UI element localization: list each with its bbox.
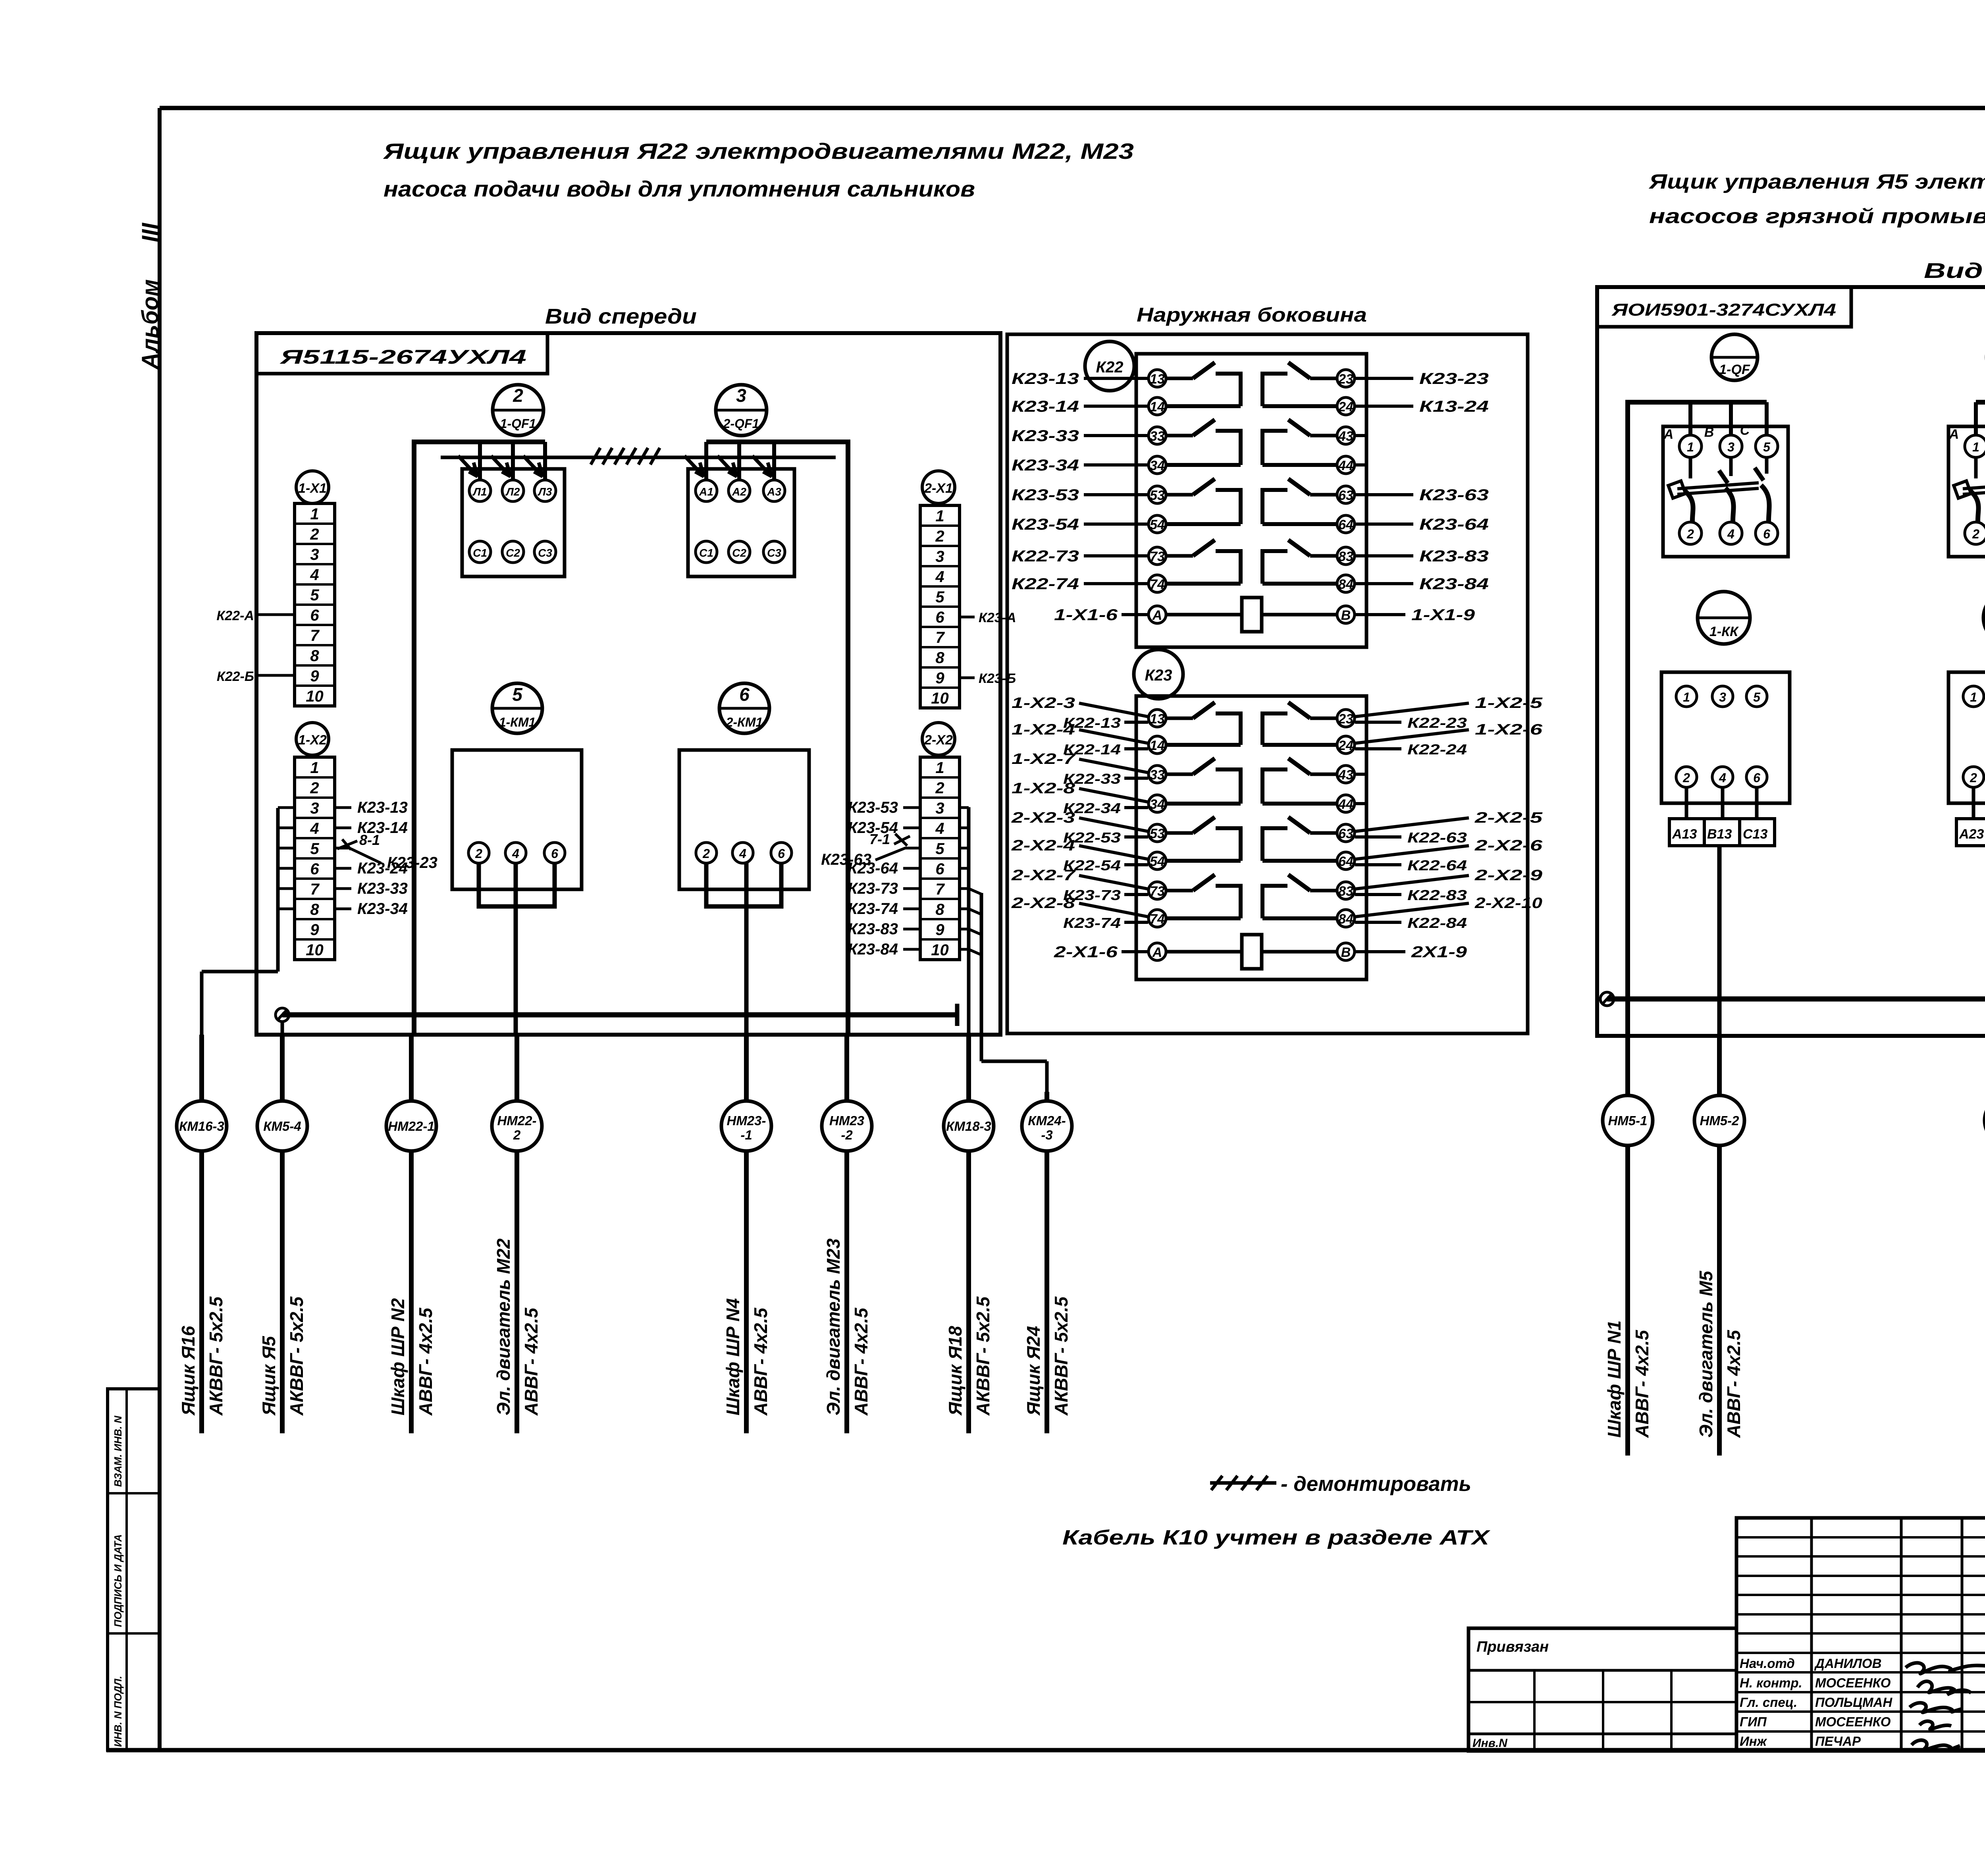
svg-text:Шкаф ШР N2: Шкаф ШР N2 <box>387 1298 408 1415</box>
svg-text:2-QF1: 2-QF1 <box>723 416 759 431</box>
svg-text:Эл. двигатель М23: Эл. двигатель М23 <box>823 1238 844 1415</box>
relay К22 contact 53-54 / 63-64 <box>1149 479 1355 533</box>
svg-text:ЯОИ5901-3274СУХЛ4: ЯОИ5901-3274СУХЛ4 <box>1611 300 1836 320</box>
svg-text:2: 2 <box>1970 771 1977 785</box>
wire labels 1-Х2-3 / К22-13 (К23 left) <box>1012 695 1148 731</box>
svg-text:АВВГ- 4х2.5: АВВГ- 4х2.5 <box>415 1307 436 1416</box>
svg-text:К22-А: К22-А <box>216 608 254 623</box>
svg-text:Ящик Я5: Ящик Я5 <box>258 1336 279 1416</box>
svg-text:2-Х2-8: 2-Х2-8 <box>1011 895 1076 912</box>
wire: 1-КМ1 terminals 2-6 loop and motor feed <box>479 863 555 1035</box>
svg-text:А2: А2 <box>732 486 746 498</box>
wire: 2-X2 right gather to КМ18-3 drop <box>960 807 969 1035</box>
terminal strip 1-X1 designator circle <box>296 471 329 503</box>
svg-text:53: 53 <box>1150 826 1165 841</box>
svg-text:В: В <box>1341 608 1351 623</box>
title: left box heading line 2 <box>384 176 975 201</box>
legend: dismantle symbol <box>1210 1476 1276 1490</box>
breaker 1-QF designator circle <box>1711 334 1758 380</box>
wire labels 1-Х2-8 / К22-34 (К23 left) <box>1012 780 1148 816</box>
breaker 2-QF1 terminal box <box>688 469 794 576</box>
wire: К22 contacts 43/44 stubs to box edge <box>1355 436 1366 465</box>
svg-text:6: 6 <box>310 607 319 624</box>
svg-text:К22-23: К22-23 <box>1407 715 1467 731</box>
svg-text:К23-64: К23-64 <box>1419 516 1489 533</box>
svg-text:3: 3 <box>736 385 746 406</box>
svg-text:2-Х2-4: 2-Х2-4 <box>1011 837 1075 854</box>
svg-text:НМ5-1: НМ5-1 <box>1608 1113 1647 1128</box>
wire labels 2-Х2-5 / К22-63 (К23 right) <box>1355 810 1543 846</box>
svg-text:5: 5 <box>310 840 319 858</box>
svg-text:2: 2 <box>310 526 319 543</box>
svg-text:34: 34 <box>1150 797 1165 812</box>
wire labels 2-Х2-8 / К23-74 (К23 left) <box>1011 895 1148 931</box>
terminal strip 2-X1 designator circle <box>922 471 955 503</box>
svg-text:5: 5 <box>935 840 944 858</box>
svg-text:АВВГ- 4х2.5: АВВГ- 4х2.5 <box>1723 1329 1744 1438</box>
svg-text:2: 2 <box>1682 771 1690 785</box>
svg-text:насоса подачи воды для упл: насоса подачи воды для уплотнения сальни… <box>384 176 975 201</box>
cable drop НМ23--1 (Шкаф ШР N4) <box>721 1035 771 1433</box>
svg-text:В: В <box>1341 945 1351 960</box>
svg-text:74: 74 <box>1150 577 1165 592</box>
wire label К23-14 at 1-X2:4 <box>335 819 408 837</box>
wire label К23-33 (К22 left) <box>1012 427 1148 445</box>
wire label К23-13 (К22 left) <box>1012 370 1148 388</box>
svg-text:К23-13: К23-13 <box>1012 370 1079 388</box>
svg-text:С2: С2 <box>506 547 520 559</box>
earth bus of left panel with earth symbol <box>276 1004 957 1035</box>
svg-text:А3: А3 <box>767 486 781 498</box>
svg-text:83: 83 <box>1338 884 1353 899</box>
svg-text:Вид спереди: Вид спереди <box>545 305 697 328</box>
svg-text:К23-34: К23-34 <box>1012 457 1079 474</box>
svg-text:8: 8 <box>310 901 319 918</box>
svg-text:2: 2 <box>1972 527 1979 541</box>
svg-text:С3: С3 <box>767 547 781 559</box>
svg-text:Альбом: Альбом <box>137 279 163 370</box>
wire label К22-73 (К22 left) <box>1012 548 1148 565</box>
svg-text:К23-34: К23-34 <box>357 900 408 918</box>
svg-text:В: В <box>1704 425 1714 440</box>
svg-text:2-Х1-6: 2-Х1-6 <box>1054 943 1118 961</box>
breaker 1-QF pole box <box>1663 423 1788 557</box>
svg-text:К22-24: К22-24 <box>1407 741 1467 758</box>
svg-text:6: 6 <box>778 846 785 861</box>
svg-text:1: 1 <box>935 759 944 777</box>
wire labels 1-Х2-7 / К22-33 (К23 left) <box>1012 751 1148 787</box>
svg-text:64: 64 <box>1338 517 1353 532</box>
svg-text:5: 5 <box>1763 440 1771 454</box>
svg-text:44: 44 <box>1338 458 1353 473</box>
svg-text:1-Х2-7: 1-Х2-7 <box>1012 751 1076 767</box>
svg-text:ПОЛЬЦМАН: ПОЛЬЦМАН <box>1815 1695 1892 1710</box>
svg-text:1: 1 <box>1970 690 1977 704</box>
svg-text:С1: С1 <box>473 547 487 559</box>
svg-text:1: 1 <box>1683 690 1690 704</box>
svg-text:6: 6 <box>310 860 319 878</box>
relay К22 contact block <box>1136 354 1366 647</box>
cable drop КМ18-3 (Ящик Я18) <box>944 1035 994 1433</box>
svg-text:Шкаф ШР N1: Шкаф ШР N1 <box>1604 1321 1625 1438</box>
contactor 1-КМ1 box <box>452 750 582 889</box>
svg-text:1: 1 <box>1687 440 1694 454</box>
svg-text:8: 8 <box>310 647 319 665</box>
svg-text:7: 7 <box>935 629 945 646</box>
left panel enclosure Я5115-2674УХЛ4 <box>256 333 1000 1035</box>
svg-text:3: 3 <box>1727 440 1734 454</box>
svg-text:НМ22-: НМ22- <box>497 1113 536 1128</box>
wire label К23-74 at 2-X2:8 <box>848 900 920 918</box>
svg-text:К23-74: К23-74 <box>848 900 898 918</box>
svg-text:Л3: Л3 <box>538 486 552 498</box>
svg-text:К23-33: К23-33 <box>357 880 408 897</box>
wire: right feeder bus to 2-QF1 <box>706 442 848 1035</box>
svg-text:АКВВГ- 5х2.5: АКВВГ- 5х2.5 <box>286 1296 307 1416</box>
svg-text:АКВВГ- 5х2.5: АКВВГ- 5х2.5 <box>1051 1296 1072 1416</box>
relay К23 contact 53-54 / 63-64 <box>1149 817 1355 870</box>
svg-text:6: 6 <box>935 609 944 626</box>
svg-text:АВВГ- 4х2.5: АВВГ- 4х2.5 <box>1632 1329 1652 1438</box>
wire: 2-X2 second gather to КМ24-3 drop <box>969 889 1047 1092</box>
outer side-wall enclosure box <box>1007 334 1528 1033</box>
wire label К23-83 (К22 right) <box>1355 548 1489 565</box>
svg-text:14: 14 <box>1150 399 1165 415</box>
note: Кабель К10 учтен в разделе АТХ <box>1062 1526 1491 1549</box>
wire label К23-63 (К22 right) <box>1355 486 1489 504</box>
svg-text:К23-73: К23-73 <box>848 880 898 897</box>
svg-text:А13: А13 <box>1672 827 1697 842</box>
svg-text:А: А <box>1663 427 1674 442</box>
svg-text:Ящик управления Я22 э: Ящик управления Я22 электродвигателями М… <box>383 139 1134 164</box>
svg-text:13: 13 <box>1150 711 1165 727</box>
wire label К23-64 (К22 right) <box>1355 516 1489 533</box>
wire label К23-23 (К22 right) <box>1355 370 1489 388</box>
wire label 2-Х1-6 (К23 coil А) <box>1054 943 1148 961</box>
svg-text:Эл. двигатель М22: Эл. двигатель М22 <box>493 1238 514 1415</box>
contactor 1-КМ1 designator circle (pos 5) <box>492 683 542 733</box>
breaker 1-QF1 designator circle (pos 2) <box>493 385 543 436</box>
svg-text:2-Х1: 2-Х1 <box>924 481 953 496</box>
wire label К22-Б at 1-X1:9 <box>217 669 295 684</box>
svg-text:2: 2 <box>1686 527 1694 541</box>
svg-text:АКВВГ- 5х2.5: АКВВГ- 5х2.5 <box>973 1296 993 1416</box>
wire: line to be dismantled (with hatch marks) <box>441 448 836 476</box>
svg-text:К23-Б: К23-Б <box>979 671 1016 686</box>
svg-text:1: 1 <box>310 505 319 523</box>
svg-text:84: 84 <box>1338 577 1353 592</box>
svg-text:ГИП: ГИП <box>1740 1714 1767 1729</box>
svg-text:КМ18-3: КМ18-3 <box>946 1119 991 1134</box>
svg-text:63: 63 <box>1338 488 1353 503</box>
svg-text:К23-54: К23-54 <box>1012 516 1079 533</box>
wire: 1-X2 left gather to КМ16-3 drop <box>202 808 295 1035</box>
svg-text:КМ24-: КМ24- <box>1028 1113 1066 1128</box>
svg-text:Ящик управления Я5 электродв: Ящик управления Я5 электродвигателями М5… <box>1648 170 1985 193</box>
svg-text:К23-14: К23-14 <box>1012 398 1079 415</box>
legend: dismantle text <box>1281 1473 1471 1496</box>
wire label К23-34 (К22 left) <box>1012 457 1148 474</box>
wire label К23-А at 2-X1:6 <box>960 610 1016 625</box>
svg-text:АВВГ- 4х2.5: АВВГ- 4х2.5 <box>521 1307 542 1416</box>
svg-text:1-Х1: 1-Х1 <box>298 481 327 496</box>
wire labels 2-Х2-9 / К22-83 (К23 right) <box>1355 867 1542 903</box>
svg-text:5: 5 <box>512 684 523 705</box>
svg-text:53: 53 <box>1150 488 1165 503</box>
svg-text:-2: -2 <box>841 1128 853 1142</box>
svg-text:2: 2 <box>935 779 944 797</box>
svg-text:2: 2 <box>935 528 944 545</box>
wire label 1-Х1-9 (К22 coil В) <box>1355 606 1475 624</box>
svg-text:ИНВ. N ПОДЛ.: ИНВ. N ПОДЛ. <box>112 1676 124 1747</box>
title block: binding table (Привязан) <box>1469 1628 1736 1751</box>
svg-text:В13: В13 <box>1707 827 1732 842</box>
svg-text:К23-53: К23-53 <box>1012 486 1079 504</box>
svg-text:Наружная боковина: Наружная боковина <box>1137 304 1367 326</box>
svg-text:К23-63: К23-63 <box>821 851 871 868</box>
svg-text:К23-63: К23-63 <box>1419 486 1489 504</box>
svg-text:33: 33 <box>1150 429 1165 444</box>
contactor 2-КМ1 box <box>679 750 809 889</box>
breaker 1-QF1 terminal box <box>462 469 565 576</box>
cable drop КМ16-3 (Ящик Я16) <box>177 1035 227 1433</box>
svg-text:7: 7 <box>310 627 320 644</box>
wire label К23-54 at 2-X2:4 <box>848 819 920 837</box>
svg-text:3: 3 <box>1719 690 1726 704</box>
svg-text:АВВГ- 4х2.5: АВВГ- 4х2.5 <box>750 1307 771 1416</box>
label: Вид спереди (left panel) <box>545 305 697 328</box>
svg-text:С1: С1 <box>699 547 713 559</box>
svg-text:6: 6 <box>1753 771 1760 785</box>
svg-text:23: 23 <box>1338 711 1353 727</box>
svg-text:6: 6 <box>739 684 750 705</box>
svg-text:К22-73: К22-73 <box>1012 548 1079 565</box>
wire label К23-73 at 2-X2:7 <box>848 880 920 897</box>
wire: В13 to НМ5-2 drop <box>1717 846 1722 1036</box>
svg-text:МОСЕЕНКО: МОСЕЕНКО <box>1815 1714 1891 1729</box>
svg-text:5: 5 <box>935 588 944 606</box>
relay К23 designator circle <box>1134 650 1183 699</box>
svg-text:1-QF1: 1-QF1 <box>500 416 536 431</box>
svg-text:7: 7 <box>310 881 320 898</box>
svg-text:2: 2 <box>702 846 710 861</box>
svg-text:64: 64 <box>1338 854 1353 869</box>
relay К22 designator circle <box>1085 341 1134 391</box>
svg-text:2-Х2-3: 2-Х2-3 <box>1011 810 1075 826</box>
svg-text:2: 2 <box>513 385 523 406</box>
terminal strip 1-X1 <box>295 503 335 706</box>
svg-text:84: 84 <box>1338 912 1353 927</box>
svg-text:МОСЕЕНКО: МОСЕЕНКО <box>1815 1675 1891 1690</box>
wire labels 2-Х2-4 / К22-54 (К23 left) <box>1011 837 1148 873</box>
svg-text:ПЕЧАР: ПЕЧАР <box>1815 1734 1861 1749</box>
svg-text:3: 3 <box>935 548 944 565</box>
wire labels 1-Х2-5 / К22-23 (К23 right) <box>1355 695 1543 731</box>
svg-text:ВЗАМ. ИНВ. N: ВЗАМ. ИНВ. N <box>112 1415 124 1487</box>
svg-text:1-QF: 1-QF <box>1719 362 1750 377</box>
svg-text:1-Х2-3: 1-Х2-3 <box>1012 695 1075 711</box>
wire: feeder bus to 1-QF and НМ5-1 drop <box>1628 402 1767 1036</box>
cable drop НМ5-2 (Эл. двигатель М5) <box>1694 1036 1744 1456</box>
svg-text:10: 10 <box>306 688 324 705</box>
svg-text:С3: С3 <box>538 547 552 559</box>
breaker 2-QF pole box <box>1948 423 1985 557</box>
svg-text:Я5115-2674УХЛ4: Я5115-2674УХЛ4 <box>279 346 526 368</box>
svg-text:73: 73 <box>1150 549 1165 564</box>
wire: feeder bus to 2-QF and НМ6-1 drop <box>1976 402 1985 1036</box>
thermal relay 2-КК box <box>1948 672 1985 803</box>
svg-text:23: 23 <box>1338 372 1353 387</box>
svg-text:- демонтировать: - демонтировать <box>1281 1473 1471 1496</box>
svg-text:10: 10 <box>931 941 949 959</box>
contactor 2-КМ1 designator circle (pos 6) <box>719 683 769 733</box>
svg-text:2-КМ1: 2-КМ1 <box>726 715 763 729</box>
svg-text:7: 7 <box>935 881 945 898</box>
svg-text:14: 14 <box>1150 738 1165 753</box>
svg-text:К22-64: К22-64 <box>1407 857 1467 873</box>
svg-text:9: 9 <box>935 921 944 939</box>
svg-text:К23-83: К23-83 <box>848 920 898 938</box>
svg-text:2-Х2-10: 2-Х2-10 <box>1474 895 1542 912</box>
svg-text:10: 10 <box>306 941 324 959</box>
wire: 2-КМ1 terminals 2-6 loop and motor feed <box>706 863 781 1035</box>
svg-text:83: 83 <box>1338 549 1353 564</box>
svg-text:33: 33 <box>1150 767 1165 783</box>
svg-text:4: 4 <box>512 846 519 861</box>
svg-text:1-Х2-5: 1-Х2-5 <box>1475 695 1543 711</box>
terminal strip 2-X1 <box>920 505 960 708</box>
relay К23 contact 13-14 / 23-24 <box>1149 702 1355 754</box>
svg-text:А1: А1 <box>699 486 713 498</box>
terminal strip 1-X2 designator circle <box>296 723 329 755</box>
svg-text:1: 1 <box>935 507 944 525</box>
svg-text:1-КК: 1-КК <box>1709 624 1739 639</box>
svg-text:13: 13 <box>1150 372 1165 387</box>
svg-text:К23-23: К23-23 <box>1419 370 1489 388</box>
svg-text:Ящик Я18: Ящик Я18 <box>945 1326 966 1416</box>
svg-text:Гл. спец.: Гл. спец. <box>1740 1695 1797 1710</box>
svg-text:Шкаф ШР N4: Шкаф ШР N4 <box>723 1298 743 1415</box>
relay К23 contact block <box>1136 696 1366 979</box>
wire: 2-КК outputs to cable lugs А23 В23 С23 <box>1956 787 1985 846</box>
svg-text:К23-84: К23-84 <box>848 941 898 958</box>
relay К22 contact 13-14 / 23-24 <box>1149 362 1355 415</box>
svg-text:74: 74 <box>1150 912 1165 927</box>
svg-text:9: 9 <box>935 669 944 687</box>
svg-text:2-Х2-7: 2-Х2-7 <box>1011 867 1076 884</box>
wire label 2Х1-9 (К23 coil В) <box>1355 943 1467 961</box>
wire labels 2-Х2-3 / К22-53 (К23 left) <box>1011 810 1148 846</box>
svg-text:43: 43 <box>1338 767 1353 783</box>
svg-text:2: 2 <box>513 1128 521 1142</box>
svg-text:К22: К22 <box>1096 359 1123 376</box>
svg-text:1-Х1-6: 1-Х1-6 <box>1054 606 1118 624</box>
svg-text:К23-83: К23-83 <box>1419 548 1489 565</box>
wire label К13-24 (К22 right) <box>1355 398 1489 415</box>
right panel type label box <box>1597 287 1851 327</box>
svg-text:К23: К23 <box>1145 667 1172 684</box>
cable drop НМ5-1 (Шкаф ШР N1) <box>1603 1036 1653 1456</box>
wire labels 2-Х2-6 / К22-64 (К23 right) <box>1355 837 1543 873</box>
svg-text:4: 4 <box>310 566 319 584</box>
svg-text:НМ5-2: НМ5-2 <box>1700 1113 1739 1128</box>
cable drop НМ22-2 (Эл. двигатель М22) <box>492 1035 542 1433</box>
svg-text:1: 1 <box>1972 440 1979 454</box>
svg-text:К23-А: К23-А <box>979 610 1016 625</box>
wire: left feeder bus to 1-QF1 <box>414 442 545 1035</box>
wire label 1-Х1-6 (К22 coil А) <box>1054 606 1148 624</box>
title: right box heading line 2 <box>1649 205 1985 228</box>
title block: signature rows text <box>1740 1656 1892 1749</box>
title block: signatures (handwritten) <box>1906 1663 1985 1750</box>
title block: revision table grid <box>1736 1518 1985 1751</box>
svg-text:III: III <box>137 222 163 242</box>
relay К23 contact 73-74 / 83-84 <box>1149 875 1355 927</box>
svg-text:54: 54 <box>1150 517 1165 532</box>
svg-text:-3: -3 <box>1041 1128 1052 1142</box>
terminal strip 2-X2 <box>920 757 960 960</box>
svg-text:2-Х2-6: 2-Х2-6 <box>1474 837 1543 854</box>
wire label К23-34 at 1-X2:8 <box>335 900 408 918</box>
svg-text:4: 4 <box>739 846 746 861</box>
album text (Альбом III) <box>137 222 163 370</box>
wire label К23-14 (К22 left) <box>1012 398 1148 415</box>
svg-text:С2: С2 <box>732 547 746 559</box>
svg-text:А: А <box>1152 945 1162 960</box>
svg-text:24: 24 <box>1338 399 1353 415</box>
svg-text:К22-Б: К22-Б <box>217 669 254 684</box>
title: left box heading line 1 <box>383 139 1134 164</box>
svg-text:Ящик Я16: Ящик Я16 <box>178 1326 198 1416</box>
svg-text:А: А <box>1949 427 1959 442</box>
svg-text:А23: А23 <box>1959 827 1984 842</box>
wire label К23-24 at 1-X2:6 <box>335 860 408 877</box>
svg-text:34: 34 <box>1150 458 1165 473</box>
wire label 7-1 (demounted) and К23-63 at 2-X2:5 <box>821 831 920 868</box>
svg-text:А: А <box>1152 608 1162 623</box>
title: right box heading line 1 <box>1648 170 1985 193</box>
svg-text:К23-84: К23-84 <box>1419 575 1489 593</box>
svg-text:1-Х2-8: 1-Х2-8 <box>1012 780 1075 797</box>
wire label К23-54 (К22 left) <box>1012 516 1148 533</box>
svg-text:2Х1-9: 2Х1-9 <box>1411 943 1467 961</box>
svg-text:43: 43 <box>1338 429 1353 444</box>
svg-text:6: 6 <box>1763 527 1770 541</box>
svg-text:Ящик Я24: Ящик Я24 <box>1023 1326 1044 1416</box>
svg-text:3: 3 <box>310 546 319 563</box>
relay К22 coil terminals А-В <box>1149 598 1355 632</box>
wire label К23-84 at 2-X2:10 <box>848 941 920 958</box>
cable drop НМ22-1 (Шкаф ШР N2) <box>386 1035 436 1433</box>
wire labels 2-Х2-10 / К22-84 (К23 right) <box>1355 895 1542 931</box>
svg-text:4: 4 <box>935 820 944 837</box>
right panel enclosure ЯОИ5901-3274СУХЛ4 <box>1597 287 1985 1036</box>
svg-text:5: 5 <box>310 586 319 604</box>
svg-text:8: 8 <box>935 649 944 667</box>
thermal relay 1-КК box <box>1661 672 1790 803</box>
svg-text:К13-24: К13-24 <box>1419 398 1489 415</box>
wire label К23-53 (К22 left) <box>1012 486 1148 504</box>
wire label К22-74 (К22 left) <box>1012 575 1148 593</box>
cable drop НМ6-2 (Эл. двигатель М6) <box>1985 1036 1985 1456</box>
svg-text:КМ16-3: КМ16-3 <box>179 1119 224 1134</box>
label: Вид спереди (right panel) <box>1924 259 1985 283</box>
svg-text:Привязан: Привязан <box>1476 1639 1549 1655</box>
svg-text:К23-74: К23-74 <box>1063 915 1121 931</box>
svg-text:Инв.N: Инв.N <box>1472 1737 1508 1750</box>
svg-text:Инж: Инж <box>1740 1734 1767 1749</box>
wire label К23-13 at 1-X2:3 <box>335 799 408 816</box>
